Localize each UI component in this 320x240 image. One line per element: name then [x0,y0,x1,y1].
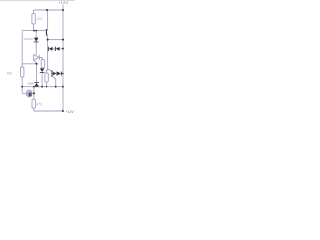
resistor R4 [21,67,24,77]
diode D1 [34,38,39,42]
svg-text:+12V: +12V [59,1,69,5]
transistor Q2 emitter diagonal [52,76,55,79]
transistor Q2 base bar [52,70,53,76]
wire bottom node horizontal [22,86,63,88]
svg-text:1N4148: 1N4148 [23,37,33,41]
wire Q2 emitter vertical [55,79,57,87]
wire U1 gate diagonal [34,60,37,64]
wire D1 anode lead [35,31,37,38]
wire node A horizontal [22,30,46,32]
wire gate node horizontal [22,63,36,65]
resistor R1 [32,14,35,24]
thyristor U1 cathode bar [38,55,40,60]
node emitter dot [47,39,49,41]
node A dot 2 [35,30,37,32]
diode D3b bar [54,47,57,51]
wire Q1 collector lead [47,10,49,30]
svg-text:1N4148: 1N4148 [27,81,34,85]
resistor R5 [32,99,35,108]
wire D1 cathode lead [35,42,37,55]
wire R1 bottom lead [33,24,35,31]
diode D3b [56,47,60,51]
svg-text:470: 470 [37,17,43,21]
node D2 bottom dot [41,86,43,88]
crystal X1 inner mark [29,93,32,97]
node chain2 rail dot [62,73,64,75]
transistor Q1 collector diagonal [46,30,49,31]
wire Q1 emitter vertical [47,35,49,70]
wire R3 bottom lead [46,82,48,87]
diode D5b [58,72,61,76]
node R3 bottom dot [46,86,47,87]
wire emitter node horizontal [48,39,63,41]
node bottom rail dot [62,86,64,88]
wire D4 vertical [36,64,38,82]
node rail dot [62,39,64,41]
diode D4 [34,83,39,87]
wire bottom rail horizontal [34,110,63,112]
svg-text:10k: 10k [7,71,13,75]
node +12V tap [62,9,64,11]
wire R2 to D2 [41,67,43,70]
diode D3a bar [47,47,50,51]
wire diode chain2 to rail [62,73,63,75]
svg-text:+12V: +12V [65,110,74,114]
resistor R3 top lead [47,70,48,73]
node +12V stub [62,5,64,10]
top page border [0,0,75,1]
diode D2 [40,68,45,72]
node gate dot [36,63,38,65]
node bottom-left dot [21,86,23,88]
node chain1 rail dot [62,48,64,50]
node -12V dot [62,110,64,112]
svg-text:470: 470 [36,102,42,106]
node top-left junction [46,9,48,11]
diode D3a [49,47,53,51]
wire top rail horizontal [34,9,63,11]
node crystal dot [33,92,35,94]
wire R5 vertical chain [33,87,35,100]
transistor Q1 emitter diagonal [46,34,49,35]
thyristor U1 triangle [34,55,39,61]
wire Q2 base to diodes [51,73,54,75]
diode D5a [53,72,56,76]
wire R4 leads [21,64,23,94]
wire right supply rail [62,10,64,111]
wire D2 bottom lead [41,73,43,87]
crystal X1 plates [27,91,32,96]
resistor R3 [45,73,48,82]
wire diode chain1 segments [48,48,63,50]
wire U1 apex to R2 [39,57,42,59]
node A dot 1 [33,30,35,32]
crystal X1 body [28,90,31,96]
wire crystal right lead [32,92,34,94]
node Q2 emitter dot [55,86,57,88]
wire R5 bottom lead [33,108,35,111]
wire left vertical [21,31,23,64]
background [0,0,75,120]
node D4 bottom dot [33,86,35,88]
transistor Q1 base bar [46,29,47,36]
resistor R2 [41,60,44,68]
transistor Q2 collector diagonal [48,69,52,72]
wire crystal left lead [22,92,26,94]
wire R1 top lead [33,10,35,14]
